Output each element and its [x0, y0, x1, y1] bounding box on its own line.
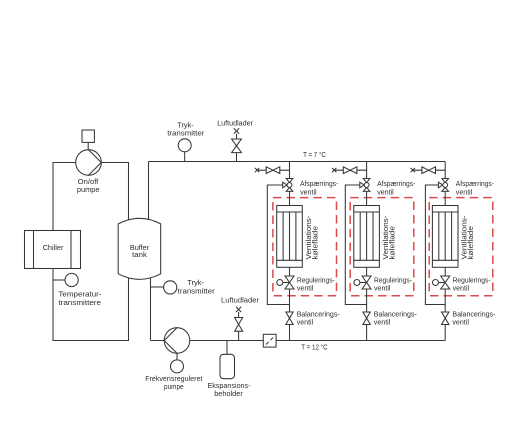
valve V2 (luftudlader lower)	[221, 296, 259, 341]
wire: coil 1 to regulating valve	[289, 267, 291, 276]
valve V1 (luftudlader upper)	[217, 118, 253, 161]
svg-text:transmittere: transmittere	[58, 298, 101, 307]
pump P2 (frekvensreguleret pumpe)	[145, 328, 203, 391]
wire: balance valve 1 to return	[289, 325, 291, 341]
valve: afspaerringsventil 3 (3-way)	[438, 179, 448, 192]
pump P1 (on/off pumpe)	[76, 130, 102, 194]
wire: bypass around coil 3	[425, 185, 445, 305]
valve: reguleringsventil 1	[277, 276, 294, 289]
svg-text:Luftudlader: Luftudlader	[217, 118, 253, 127]
buffer tank	[118, 218, 161, 279]
cooling coil 1 (ventilations-koeleflade)	[277, 206, 303, 268]
svg-text:Chiller: Chiller	[43, 243, 64, 252]
valve: afspaerringsventil 1 (3-way)	[283, 179, 293, 192]
wire: valve to coil 1	[289, 191, 291, 205]
wire: bypass around coil 1	[267, 185, 289, 305]
svg-text:Luftudlader: Luftudlader	[221, 296, 259, 305]
wire: coil 3 to regulating valve	[444, 267, 446, 276]
red dashed enclosure 2	[350, 198, 414, 296]
flow sensor (square with arrow)	[263, 334, 276, 347]
red dashed enclosure 1	[273, 198, 337, 296]
wire: on/off pump discharge to tank top-left	[101, 163, 128, 220]
wire: coil 2 to regulating valve	[366, 267, 368, 276]
valve: balanceringsventil 3	[442, 312, 449, 325]
valve: capped stub + shut-off bowtie 3	[411, 167, 446, 174]
wire: valve to coil 2	[366, 191, 368, 205]
valve: capped stub + shut-off bowtie 2	[332, 167, 367, 174]
transmitter PT1 (tryk-transmitter upper)	[167, 120, 205, 161]
transmitter PT2 (tryk-transmitter lower)	[151, 278, 216, 295]
wire: tank top-right riser to supply	[148, 162, 150, 220]
svg-text:køleflade: køleflade	[387, 226, 396, 260]
svg-text:ventil: ventil	[377, 187, 394, 196]
svg-text:ventil: ventil	[452, 318, 469, 327]
svg-text:tank: tank	[132, 250, 147, 259]
cooling coil 3 (ventilations-koeleflade)	[432, 206, 458, 268]
valve: balanceringsventil 1	[286, 312, 293, 325]
expansion vessel (ekspansionsbeholder)	[207, 341, 251, 399]
valve: reguleringsventil 3	[433, 276, 450, 289]
wire: bypass around coil 2	[345, 185, 366, 305]
wire: regulating valve to balance valve 2	[366, 289, 368, 312]
wire: return header T=12C	[151, 340, 446, 342]
wire: branch 2 drop from supply	[366, 162, 368, 179]
svg-text:ventil: ventil	[300, 187, 317, 196]
svg-text:T = 12 °C: T = 12 °C	[301, 342, 328, 351]
valve: afspaerringsventil 2 (3-way)	[360, 179, 370, 192]
svg-text:ventil: ventil	[374, 283, 391, 292]
svg-text:pumpe: pumpe	[164, 382, 184, 391]
wire: chiller bottom to tank bottom-left	[53, 269, 129, 341]
wire: branch 1 drop from supply	[289, 162, 291, 179]
svg-text:pumpe: pumpe	[77, 185, 100, 194]
svg-text:ventil: ventil	[297, 283, 314, 292]
transmitter TT1 (temperatur-transmittere)	[53, 273, 102, 307]
valve: balanceringsventil 2	[363, 312, 370, 325]
svg-text:ventil: ventil	[374, 318, 391, 327]
wire: tank bottom-right downcomer to return	[150, 278, 152, 341]
wire: regulating valve to balance valve 3	[444, 289, 446, 312]
svg-text:ventil: ventil	[456, 187, 473, 196]
valve: capped stub + shut-off bowtie 1	[255, 167, 290, 174]
wire: regulating valve to balance valve 1	[289, 289, 291, 312]
svg-text:beholder: beholder	[214, 389, 243, 398]
wire: balance valve 2 to return	[366, 325, 368, 341]
cooling coil 2 (ventilations-koeleflade)	[354, 206, 380, 268]
red dashed enclosure 3	[429, 198, 493, 296]
svg-text:ventil: ventil	[453, 283, 470, 292]
wire: supply header T=7C	[149, 161, 446, 163]
wire: branch 3 drop from supply	[444, 162, 446, 179]
svg-text:transmitter: transmitter	[167, 128, 205, 137]
valve: reguleringsventil 2	[354, 276, 371, 289]
chiller	[25, 231, 81, 269]
svg-text:køleflade: køleflade	[310, 226, 319, 260]
svg-text:køleflade: køleflade	[466, 226, 475, 260]
svg-text:ventil: ventil	[297, 318, 314, 327]
svg-text:T = 7 °C: T = 7 °C	[303, 150, 326, 159]
wire: chiller loop suction (pump to chiller top)	[53, 163, 76, 231]
wire: valve to coil 3	[444, 191, 446, 205]
wire: balance valve 3 to return	[444, 325, 446, 341]
svg-text:transmitter: transmitter	[178, 286, 215, 295]
